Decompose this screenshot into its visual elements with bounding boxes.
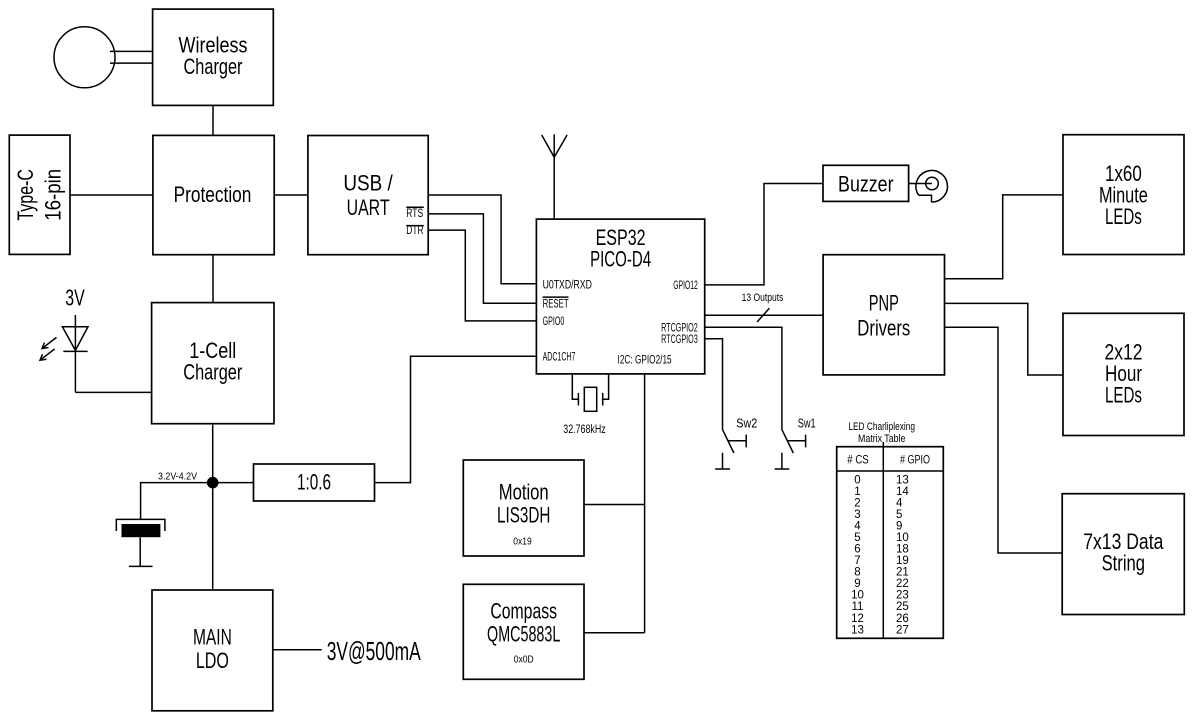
wire PNP Drivers to 1x60 Minute LEDs <box>945 195 1064 279</box>
ground (SW2) <box>715 468 730 470</box>
svg-text:4: 4 <box>854 521 861 533</box>
wire junction to 1:0.6 divider <box>213 482 254 484</box>
svg-text:LDO: LDO <box>196 648 229 673</box>
svg-text:ADC1CH7: ADC1CH7 <box>543 352 576 364</box>
svg-text:QMC5883L: QMC5883L <box>487 622 560 647</box>
svg-text:13: 13 <box>851 624 864 636</box>
svg-text:12: 12 <box>851 613 864 625</box>
svg-text:4: 4 <box>896 497 903 509</box>
wire coil to Wireless Charger bottom <box>110 62 153 64</box>
svg-text:3V: 3V <box>65 284 85 310</box>
switch SW1 <box>782 430 806 469</box>
svg-text:Charger: Charger <box>184 54 243 79</box>
svg-text:MAIN: MAIN <box>193 625 232 650</box>
svg-text:Matrix Table: Matrix Table <box>858 433 905 445</box>
block 2x12 Hour LEDs <box>1063 313 1184 435</box>
wire USB/UART TX/RX to ESP32 U0TXD/RXD <box>428 195 536 284</box>
svg-text:3: 3 <box>854 509 860 521</box>
switch SW2 <box>723 430 747 469</box>
bus slash marker <box>757 308 769 322</box>
svg-text:RTCGPIO3: RTCGPIO3 <box>661 334 698 346</box>
svg-text:Type-C: Type-C <box>13 169 38 221</box>
svg-text:PICO-D4: PICO-D4 <box>590 247 651 272</box>
svg-text:5: 5 <box>854 532 860 544</box>
svg-text:10: 10 <box>851 590 864 602</box>
svg-text:RTS: RTS <box>406 208 423 220</box>
pin label RESET (active low) <box>543 297 569 310</box>
svg-text:0x0D: 0x0D <box>514 654 534 665</box>
table rows CS to GPIO <box>851 474 909 636</box>
svg-text:13: 13 <box>896 474 909 486</box>
buzzer sounder icon LS1 <box>916 171 948 203</box>
wire Buzzer to sounder <box>909 183 932 185</box>
wire coil to Wireless Charger top <box>110 50 153 52</box>
pin label RTS (active low) <box>406 207 424 220</box>
junction battery node <box>207 477 219 489</box>
svg-text:25: 25 <box>896 601 909 613</box>
svg-text:19: 19 <box>896 555 909 567</box>
block 1x60 Minute LEDs <box>1063 135 1184 255</box>
svg-text:DTR: DTR <box>406 225 423 237</box>
crystal Y1 <box>572 375 608 412</box>
svg-text:PNP: PNP <box>869 291 899 316</box>
block Motion LIS3DH <box>463 460 584 556</box>
ground (SW1) <box>775 468 790 470</box>
svg-text:27: 27 <box>896 624 909 636</box>
svg-text:22: 22 <box>896 578 909 590</box>
block Type-C 16-pin connector <box>9 135 70 254</box>
wire I2C bus vertical <box>644 374 646 633</box>
wire RTS to ESP32 RESET <box>428 214 536 303</box>
svg-text:RESET: RESET <box>543 298 569 310</box>
svg-text:18: 18 <box>896 544 909 556</box>
svg-text:21: 21 <box>896 567 909 579</box>
wire PNP Drivers to 2x12 Hour LEDs <box>945 303 1064 375</box>
wire 1-Cell Charger to MAIN LDO (battery net) <box>212 424 214 590</box>
svg-text:3V@500mA: 3V@500mA <box>327 636 421 666</box>
svg-text:0x19: 0x19 <box>513 536 532 547</box>
block USB / UART <box>308 136 428 255</box>
block ESP32 PICO-D4 <box>536 219 704 374</box>
block Buzzer <box>823 165 909 201</box>
svg-text:U0TXD/RXD: U0TXD/RXD <box>543 279 592 291</box>
block 1-Cell Charger <box>152 303 274 424</box>
svg-text:GPIO12: GPIO12 <box>673 280 698 292</box>
table title LED Charliplexing Matrix Table <box>848 421 915 445</box>
block PNP Drivers <box>823 255 944 375</box>
svg-text:Sw2: Sw2 <box>736 416 757 431</box>
svg-text:USB /: USB / <box>343 171 393 196</box>
svg-text:7: 7 <box>854 555 860 567</box>
wire DTR to ESP32 GPIO0 <box>428 230 536 321</box>
wire MAIN LDO output <box>273 649 322 651</box>
wire ESP32 RTCGPIO3 to SW2 <box>705 339 723 430</box>
svg-text:LEDs: LEDs <box>1105 204 1142 229</box>
svg-text:26: 26 <box>896 613 909 625</box>
block Protection <box>153 135 274 254</box>
svg-text:16-pin: 16-pin <box>41 169 66 221</box>
wire Protection to USB/UART <box>274 194 308 196</box>
svg-text:# CS: # CS <box>847 455 869 467</box>
wire I2C to Motion <box>584 504 645 506</box>
svg-text:LIS3DH: LIS3DH <box>497 503 550 528</box>
svg-text:11: 11 <box>852 601 864 613</box>
block MAIN LDO <box>152 590 273 711</box>
svg-text:2: 2 <box>854 497 860 509</box>
svg-text:LED Charliplexing: LED Charliplexing <box>848 421 915 433</box>
wire ESP32 RTCGPIO2 to SW1 <box>705 327 782 429</box>
svg-text:1: 1 <box>854 486 860 498</box>
svg-text:13 Outputs: 13 Outputs <box>742 292 784 304</box>
svg-text:Buzzer: Buzzer <box>838 172 894 197</box>
block 7x13 Data String <box>1062 494 1184 615</box>
block 1:0.6 divider <box>254 464 375 501</box>
svg-text:9: 9 <box>896 521 902 533</box>
svg-text:LEDs: LEDs <box>1105 383 1142 408</box>
svg-text:1:0.6: 1:0.6 <box>297 470 331 495</box>
wire Type-C to Protection <box>70 194 153 196</box>
svg-text:32.768kHz: 32.768kHz <box>563 424 606 436</box>
svg-text:5: 5 <box>896 509 902 521</box>
svg-text:# GPIO: # GPIO <box>900 455 930 467</box>
wire I2C to Compass <box>584 632 645 634</box>
svg-text:3.2V-4.2V: 3.2V-4.2V <box>158 471 197 483</box>
svg-text:GPIO0: GPIO0 <box>543 316 565 328</box>
svg-text:Motion: Motion <box>499 479 549 504</box>
wire Wireless Charger to Protection <box>212 105 214 135</box>
svg-text:0: 0 <box>854 474 860 486</box>
svg-text:10: 10 <box>896 532 909 544</box>
wireless charging coil L1 <box>54 27 115 88</box>
pin label DTR (active low) <box>406 225 424 237</box>
table LED charlieplexing matrix <box>837 442 944 638</box>
ground (battery) <box>129 565 153 567</box>
svg-text:String: String <box>1102 551 1145 576</box>
wire ESP32 GPIO12 to Buzzer <box>705 184 823 285</box>
wire 1:0.6 to ESP32 ADC1CH7 <box>375 356 537 482</box>
wire junction to battery <box>141 483 213 520</box>
svg-text:RTCGPIO2: RTCGPIO2 <box>661 322 698 334</box>
svg-text:8: 8 <box>854 567 860 579</box>
battery BT1 <box>116 519 165 566</box>
bus ESP32 to PNP Drivers (13 outputs) <box>705 314 823 316</box>
svg-text:23: 23 <box>896 590 909 602</box>
svg-text:Protection: Protection <box>174 182 252 207</box>
svg-text:UART: UART <box>347 195 390 220</box>
antenna <box>542 134 567 219</box>
wire PNP Drivers to 7x13 Data String <box>945 327 1063 553</box>
svg-text:Charger: Charger <box>183 360 242 385</box>
svg-text:I2C: GPIO2/15: I2C: GPIO2/15 <box>618 355 672 367</box>
svg-text:6: 6 <box>854 544 860 556</box>
block Wireless Charger <box>153 9 274 105</box>
svg-text:Compass: Compass <box>490 598 557 623</box>
svg-text:Sw1: Sw1 <box>798 416 816 431</box>
wire LED to 1-Cell Charger <box>75 391 151 393</box>
svg-text:9: 9 <box>854 578 860 590</box>
svg-text:Drivers: Drivers <box>857 316 910 341</box>
wire Protection to 1-Cell Charger <box>212 255 214 303</box>
svg-text:14: 14 <box>896 486 909 498</box>
LED D1 <box>40 315 88 392</box>
block Compass QMC5883L <box>463 584 584 679</box>
